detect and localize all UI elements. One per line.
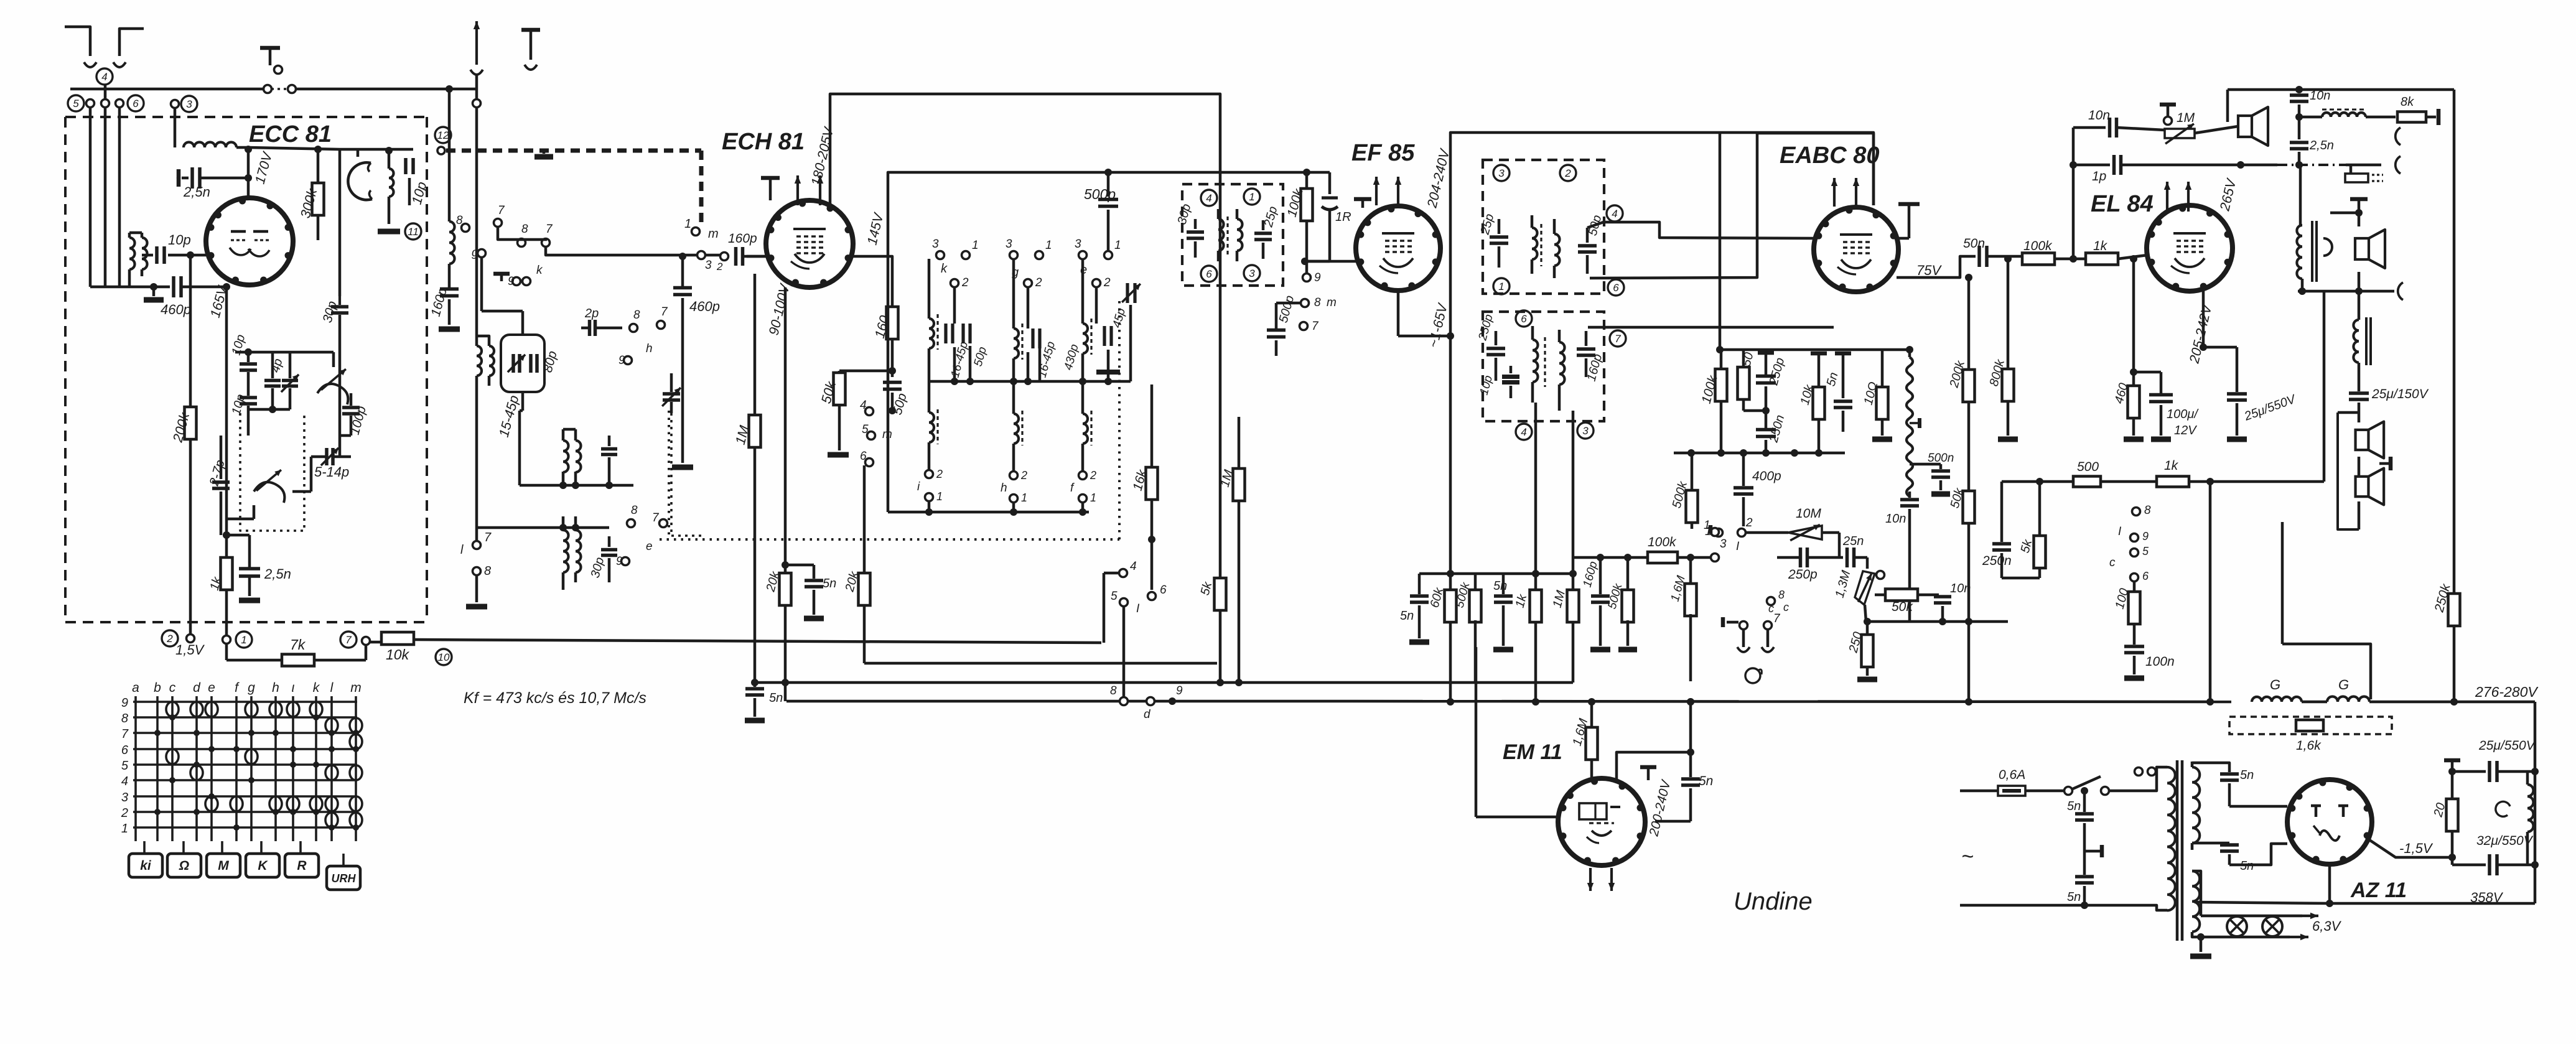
svg-text:EABC 80: EABC 80 bbox=[1780, 142, 1880, 169]
ground bbox=[534, 154, 553, 160]
capacitor 50p bbox=[883, 381, 902, 385]
resistor 5k mid bbox=[1215, 578, 1226, 610]
wire: antenna bus bbox=[70, 88, 264, 91]
antenna terminal A2 bbox=[119, 29, 144, 56]
svg-text:6: 6 bbox=[2142, 570, 2149, 582]
capacitor 30p bbox=[338, 296, 341, 305]
capacitor 2,5n hf bbox=[2290, 141, 2308, 144]
pins bottom bbox=[2132, 508, 2140, 516]
node 6 bbox=[1516, 310, 1532, 327]
tuning capacitor osc bbox=[317, 384, 348, 404]
wire bbox=[236, 147, 340, 149]
node 6 bbox=[1608, 279, 1624, 296]
bus 1097 bbox=[755, 681, 1573, 684]
ground bbox=[1590, 647, 1610, 653]
svg-text:100k: 100k bbox=[1648, 535, 1677, 549]
svg-text:m: m bbox=[350, 681, 362, 695]
record player symbol bbox=[1745, 668, 1760, 683]
resistor 60k bbox=[1445, 590, 1457, 622]
svg-text:Undine: Undine bbox=[1734, 888, 1813, 915]
pins 1 2 I bbox=[1715, 529, 1723, 537]
svg-text:1: 1 bbox=[936, 490, 943, 503]
wire bbox=[104, 107, 107, 287]
svg-text:5: 5 bbox=[121, 759, 129, 773]
svg-text:9: 9 bbox=[2142, 530, 2149, 543]
svg-text:ι: ι bbox=[292, 681, 295, 695]
svg-text:1: 1 bbox=[684, 217, 691, 231]
IFT2 coils bbox=[1532, 228, 1538, 259]
hf coil bbox=[2299, 116, 2322, 119]
svg-text:400p: 400p bbox=[1752, 469, 1781, 483]
node 3 bbox=[1577, 422, 1594, 439]
capacitor 460p bbox=[90, 286, 170, 289]
IF filter section 2 bbox=[1012, 259, 1015, 329]
resistor 50k af bbox=[1875, 594, 1885, 597]
dashed trimmer line bbox=[670, 413, 673, 536]
svg-text:e: e bbox=[646, 540, 653, 553]
svg-text:6: 6 bbox=[1521, 313, 1527, 325]
capacitor 5n ht2 bbox=[2192, 842, 2229, 845]
node 1 bbox=[1244, 189, 1260, 205]
svg-text:2: 2 bbox=[1090, 469, 1096, 482]
svg-text:2: 2 bbox=[166, 633, 173, 645]
svg-text:1: 1 bbox=[1114, 239, 1121, 252]
screen frame bbox=[1450, 133, 1874, 429]
svg-text:ECH 81: ECH 81 bbox=[722, 129, 805, 155]
dial lamp 1 bbox=[2227, 916, 2247, 936]
wires down from IFT3 bbox=[1534, 403, 1538, 702]
pin 8 bbox=[473, 567, 481, 576]
resistor 250 bbox=[1866, 622, 1869, 636]
svg-text:7: 7 bbox=[121, 727, 129, 741]
capacitor 160p bbox=[440, 287, 459, 291]
ground bbox=[2151, 437, 2171, 442]
wire bbox=[340, 148, 358, 151]
svg-text:e: e bbox=[208, 681, 215, 695]
svg-text:9: 9 bbox=[1314, 271, 1321, 284]
capacitor 10p bbox=[155, 246, 159, 264]
secondary HT bbox=[2192, 767, 2200, 843]
dash-dot run bbox=[2277, 164, 2346, 166]
IF filter section 1 bbox=[928, 259, 931, 319]
svg-text:25n: 25n bbox=[1842, 534, 1864, 548]
svg-text:1,6k: 1,6k bbox=[2296, 739, 2322, 753]
capacitor 25u/550V ps bbox=[2448, 768, 2456, 775]
svg-text:2: 2 bbox=[1103, 276, 1111, 289]
IF transformer I (dashed) bbox=[1182, 184, 1283, 286]
cathode arrows bbox=[1589, 868, 1592, 891]
svg-text:100k: 100k bbox=[2023, 239, 2053, 253]
resistor 10k bbox=[370, 641, 381, 644]
resistor 200k af bbox=[1967, 277, 1971, 371]
capacitor 500p bbox=[1107, 172, 1110, 197]
svg-text:m: m bbox=[1327, 296, 1337, 309]
wire grid bbox=[747, 255, 767, 258]
svg-text:276-280V: 276-280V bbox=[2475, 684, 2539, 700]
capacitor 5n a bbox=[782, 561, 789, 569]
main B+ bus 276-280V bbox=[1353, 701, 2231, 702]
svg-text:8: 8 bbox=[1314, 296, 1321, 309]
svg-text:7: 7 bbox=[484, 531, 492, 544]
feedback resistor 1k bbox=[2157, 477, 2189, 487]
svg-text:1M: 1M bbox=[2177, 111, 2195, 125]
svg-text:5: 5 bbox=[73, 98, 79, 110]
tube EL84 bbox=[2147, 205, 2233, 291]
tbar right bbox=[1898, 202, 1920, 207]
svg-text:8: 8 bbox=[121, 712, 128, 725]
button stems bbox=[143, 841, 146, 854]
svg-text:3: 3 bbox=[1249, 268, 1255, 279]
wire mains bottom bbox=[1960, 904, 2147, 907]
capacitor 10n pot bbox=[1908, 492, 1911, 498]
svg-text:4: 4 bbox=[1206, 192, 1211, 204]
capacitor 5n agc bbox=[1418, 574, 1421, 594]
svg-text:5: 5 bbox=[1111, 590, 1118, 603]
grid wire bbox=[1475, 647, 1478, 817]
capacitor 2,5n bbox=[177, 178, 181, 179]
svg-text:4: 4 bbox=[1612, 208, 1617, 220]
svg-text:4: 4 bbox=[1130, 560, 1137, 573]
ground bbox=[1931, 492, 1950, 497]
svg-text:c: c bbox=[1783, 601, 1789, 613]
ground bbox=[152, 287, 156, 296]
resistor 20 bbox=[2444, 758, 2460, 763]
capacitor 5n m1 bbox=[2081, 787, 2088, 795]
pins 1 m bbox=[692, 228, 700, 236]
antenna terminal A1 bbox=[65, 27, 90, 56]
node 3 bbox=[1244, 265, 1260, 281]
wire bbox=[1301, 258, 1309, 265]
ground bbox=[1872, 437, 1892, 442]
svg-text:3: 3 bbox=[1498, 167, 1505, 179]
svg-text:I: I bbox=[2118, 525, 2122, 538]
svg-text:500n: 500n bbox=[1928, 452, 1954, 465]
IFT3 cap 10p bbox=[1502, 375, 1519, 379]
IFT2 cap 50p bbox=[1578, 244, 1597, 248]
svg-text:2: 2 bbox=[936, 468, 943, 480]
svg-text:4: 4 bbox=[1521, 426, 1526, 438]
capacitor 500p bbox=[1276, 302, 1300, 305]
svg-text:5: 5 bbox=[862, 423, 869, 436]
svg-text:Ω: Ω bbox=[179, 859, 189, 873]
AF line bbox=[1867, 620, 2008, 623]
svg-text:10n: 10n bbox=[1885, 512, 1906, 526]
svg-text:8: 8 bbox=[1110, 684, 1117, 697]
pin 8 c bbox=[1767, 597, 1775, 605]
svg-text:2: 2 bbox=[716, 261, 723, 273]
svg-text:25μ/150V: 25μ/150V bbox=[2371, 387, 2429, 401]
keying pins bottom bbox=[162, 630, 178, 646]
wire 75V output bbox=[1897, 256, 1969, 277]
cathode output bbox=[2328, 864, 2331, 903]
grid line 50n bbox=[1969, 255, 1976, 258]
bus 1066 bbox=[864, 662, 1217, 665]
heater arrows bbox=[2166, 182, 2168, 212]
capacitor 460p osc grid bbox=[681, 256, 684, 286]
svg-text:Kf = 473 kc/s és 10,7 Mc/s: Kf = 473 kc/s és 10,7 Mc/s bbox=[464, 689, 646, 707]
bus 276-280V left bbox=[786, 700, 1353, 703]
svg-text:m: m bbox=[708, 227, 719, 241]
wire bbox=[174, 108, 177, 147]
vertical from frame bbox=[1449, 429, 1452, 702]
svg-text:g: g bbox=[472, 246, 478, 259]
svg-text:8k: 8k bbox=[2401, 95, 2414, 109]
svg-text:5-14p: 5-14p bbox=[314, 464, 349, 480]
svg-text:9: 9 bbox=[508, 275, 515, 288]
keyboard crossover bumps bbox=[172, 702, 179, 717]
svg-text:2,5n: 2,5n bbox=[2309, 139, 2334, 152]
svg-text:3: 3 bbox=[121, 791, 128, 804]
svg-text:1k: 1k bbox=[2093, 239, 2108, 253]
wire speaker return bbox=[2298, 290, 2394, 293]
resistor 10k bbox=[1811, 352, 1827, 356]
resistor 50 bbox=[1742, 350, 1745, 369]
wire bbox=[118, 107, 121, 287]
svg-text:K: K bbox=[258, 859, 268, 873]
ground bbox=[672, 465, 693, 470]
capacitor 2,5n to ground bbox=[223, 531, 230, 539]
svg-text:URH: URH bbox=[332, 872, 357, 885]
capacitor 2p bbox=[588, 320, 592, 336]
oscillator padder cluster bbox=[247, 348, 250, 362]
svg-text:d: d bbox=[193, 681, 201, 695]
svg-text:3: 3 bbox=[705, 259, 712, 272]
capacitor 100p bbox=[350, 393, 353, 406]
thick cap 430p bbox=[1096, 370, 1120, 375]
dashed box: ECC81 tuner unit bbox=[65, 116, 427, 118]
svg-text:l: l bbox=[460, 543, 464, 557]
IF filter section 3 bbox=[1081, 259, 1085, 324]
svg-text:EF 85: EF 85 bbox=[1351, 140, 1415, 166]
svg-text:6: 6 bbox=[1160, 584, 1167, 597]
EABC frame bbox=[1757, 132, 1874, 135]
oscillator shield bbox=[348, 162, 372, 200]
svg-text:10M: 10M bbox=[1796, 506, 1821, 521]
tbar bbox=[2389, 457, 2393, 470]
fuse 0,6A bbox=[1960, 790, 1998, 793]
svg-text:8: 8 bbox=[2144, 504, 2151, 517]
capacitor 5n m2 bbox=[2075, 875, 2094, 879]
svg-text:10n: 10n bbox=[2088, 108, 2110, 123]
node 7 bbox=[1610, 330, 1626, 347]
IFT1 cap 25p bbox=[1254, 231, 1272, 235]
dial lamp 2 bbox=[2262, 916, 2282, 936]
svg-text:1: 1 bbox=[972, 239, 979, 252]
resistor 20k a bbox=[784, 287, 787, 574]
svg-text:9: 9 bbox=[616, 555, 623, 568]
wire FM line bbox=[475, 75, 478, 100]
node 12 bbox=[435, 127, 451, 143]
IFT1 coils bbox=[1218, 219, 1224, 251]
resistor 20k b bbox=[863, 465, 866, 574]
svg-text:25μ/550V: 25μ/550V bbox=[2478, 739, 2536, 753]
ground bbox=[466, 604, 487, 610]
resistor 500k det bbox=[1626, 557, 1630, 592]
dotted box oscillator bbox=[240, 413, 304, 531]
svg-text:12: 12 bbox=[437, 129, 449, 141]
node 6 bbox=[1201, 266, 1217, 282]
svg-text:a: a bbox=[132, 681, 139, 695]
wire bbox=[189, 255, 192, 407]
ground bbox=[2124, 676, 2144, 681]
wire bbox=[953, 287, 956, 324]
resistor 1M bbox=[754, 274, 757, 415]
secondary heater bbox=[2192, 871, 2200, 932]
tbar tap bbox=[2084, 850, 2102, 853]
svg-text:-1,5V: -1,5V bbox=[2399, 841, 2434, 856]
wire bbox=[521, 392, 525, 411]
svg-text:5n: 5n bbox=[1493, 579, 1507, 593]
svg-text:5n: 5n bbox=[1699, 774, 1713, 788]
svg-text:250p: 250p bbox=[1788, 567, 1818, 582]
svg-text:5n: 5n bbox=[2067, 799, 2081, 813]
svg-text:8: 8 bbox=[631, 504, 638, 517]
cathode stub bbox=[2202, 290, 2205, 347]
capacitor 10n tone bbox=[2073, 126, 2106, 129]
svg-text:AZ 11: AZ 11 bbox=[2350, 879, 2407, 902]
resistor 100k bbox=[1305, 172, 1309, 190]
svg-text:~: ~ bbox=[1961, 845, 1974, 869]
capacitor 5n bus bbox=[751, 679, 758, 686]
capacitor 5n ht1 bbox=[2192, 763, 2229, 772]
potentiometer 1,3M bbox=[1855, 571, 1875, 605]
wire bbox=[520, 484, 633, 487]
switch pins cluster bbox=[462, 224, 470, 232]
output -1,5V bbox=[2369, 840, 2452, 857]
tube bottom stub bbox=[1397, 291, 1400, 336]
mains switch bbox=[2025, 790, 2063, 793]
svg-text:7: 7 bbox=[652, 511, 660, 524]
capacitor 32u/550V bbox=[2451, 857, 2454, 865]
button URH bbox=[327, 866, 360, 890]
ground bbox=[1618, 647, 1637, 653]
svg-text:2: 2 bbox=[1020, 469, 1027, 482]
svg-text:2,5n: 2,5n bbox=[183, 184, 210, 200]
ground tbar bbox=[1640, 765, 1656, 770]
pot tap bbox=[1918, 421, 1922, 426]
svg-text:k: k bbox=[941, 262, 948, 276]
bottom verticals bbox=[2209, 482, 2212, 702]
svg-text:3: 3 bbox=[1720, 538, 1727, 551]
capacitor 1p bbox=[2073, 164, 2110, 167]
node 3 bbox=[1493, 165, 1510, 181]
svg-text:10k: 10k bbox=[386, 646, 410, 663]
ground bbox=[1409, 640, 1429, 645]
wire bbox=[2195, 126, 2238, 133]
node 11 bbox=[405, 223, 421, 240]
feedback resistor 500 bbox=[2002, 480, 2074, 483]
svg-text:12V: 12V bbox=[2174, 424, 2197, 437]
resistor 300k bbox=[317, 149, 320, 183]
svg-text:4: 4 bbox=[121, 775, 128, 788]
resistor 100k det bbox=[1720, 350, 1723, 370]
svg-text:1: 1 bbox=[1021, 492, 1027, 504]
capacitor 45p trimmer bbox=[1126, 283, 1129, 303]
capacitor 5n em bbox=[1689, 702, 1692, 777]
oscillator coil 10p group bbox=[388, 151, 391, 169]
pins 1 3 bbox=[1711, 554, 1719, 562]
tweeter speaker bbox=[2238, 116, 2252, 137]
resistor 100 bbox=[2133, 581, 2136, 593]
capacitor 25u/150V bbox=[2349, 391, 2369, 395]
pins 4 5 m 6 bbox=[866, 408, 874, 416]
AM antenna coil bbox=[448, 89, 451, 221]
svg-text:EM 11: EM 11 bbox=[1503, 740, 1562, 764]
choke G2 bbox=[2302, 701, 2327, 704]
svg-text:1: 1 bbox=[1498, 281, 1504, 292]
wire bbox=[1220, 171, 1330, 174]
capacitor 25n bbox=[1839, 556, 1843, 559]
capacitor 1,5p bbox=[601, 447, 617, 451]
ground bbox=[439, 327, 460, 332]
svg-text:32μ/550V: 32μ/550V bbox=[2476, 834, 2534, 848]
capacitor 100u/12V bbox=[2134, 371, 2161, 374]
IF filter section 2 lower bbox=[1012, 381, 1015, 414]
IFT3 coils bbox=[1533, 340, 1538, 382]
svg-text:460p: 460p bbox=[161, 302, 191, 317]
heater arrows bbox=[796, 175, 799, 205]
resistor 100k det2 bbox=[1573, 556, 1646, 559]
ground bbox=[1998, 437, 2018, 442]
ground bbox=[239, 598, 260, 604]
FM IF transformer bbox=[477, 346, 482, 376]
svg-text:5: 5 bbox=[2142, 545, 2149, 557]
node 5 bbox=[68, 95, 84, 111]
svg-text:9: 9 bbox=[121, 696, 128, 710]
inductor L1 bbox=[184, 142, 236, 148]
svg-text:ECC 81: ECC 81 bbox=[249, 121, 332, 147]
svg-text:1p: 1p bbox=[2092, 169, 2106, 184]
svg-text:c: c bbox=[2109, 556, 2116, 569]
svg-text:11: 11 bbox=[408, 226, 419, 238]
svg-text:460p: 460p bbox=[689, 299, 720, 314]
power transformer primary bbox=[2135, 768, 2143, 776]
svg-text:160p: 160p bbox=[728, 231, 757, 246]
right rail bbox=[2453, 90, 2456, 593]
svg-text:M: M bbox=[218, 859, 229, 873]
ground bbox=[1493, 647, 1513, 653]
svg-text:EL 84: EL 84 bbox=[2091, 191, 2154, 217]
svg-text:1: 1 bbox=[1249, 191, 1254, 203]
keyboard matrix columns bbox=[134, 696, 137, 841]
capacitor 400p bbox=[1742, 453, 1745, 486]
svg-text:4: 4 bbox=[101, 71, 107, 83]
svg-text:3: 3 bbox=[186, 98, 192, 110]
svg-text:9: 9 bbox=[618, 354, 625, 367]
svg-text:R: R bbox=[297, 859, 307, 873]
keyboard matrix rows bbox=[133, 701, 357, 703]
svg-text:7: 7 bbox=[498, 204, 505, 217]
svg-text:ki: ki bbox=[140, 859, 152, 873]
svg-text:5n: 5n bbox=[1400, 609, 1414, 623]
svg-text:7: 7 bbox=[1773, 612, 1781, 625]
capacitor 250n fb bbox=[2000, 482, 2004, 542]
svg-text:10p: 10p bbox=[168, 232, 191, 248]
node 1 bbox=[1493, 278, 1510, 294]
button K bbox=[246, 854, 279, 877]
svg-text:6: 6 bbox=[1613, 282, 1619, 294]
heater arrows bbox=[1375, 177, 1378, 205]
resistor 5k fb bbox=[2038, 482, 2042, 537]
svg-text:100μ/: 100μ/ bbox=[2167, 408, 2199, 421]
heater line to lamps bbox=[2192, 871, 2201, 916]
capacitor 160p grid bbox=[734, 247, 738, 266]
output transformer bbox=[2297, 225, 2302, 279]
bus right bbox=[2369, 701, 2535, 704]
anode riser bbox=[2299, 165, 2302, 225]
resistor 800k bbox=[2007, 259, 2010, 370]
phone jacks bbox=[2396, 128, 2401, 145]
